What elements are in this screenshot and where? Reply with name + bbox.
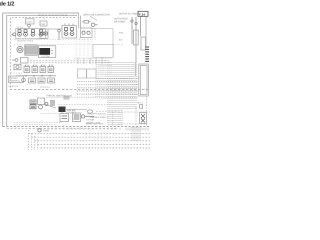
bottom fan rows bbox=[29, 134, 151, 148]
sensor S1 box bbox=[40, 29, 48, 39]
injector dots bbox=[65, 33, 72, 34]
svg-text:PARK / NEUTRAL: PARK / NEUTRAL bbox=[86, 122, 105, 125]
mini box marks bbox=[30, 80, 53, 82]
wire W-tr1 bbox=[131, 17, 133, 44]
relay K2 bbox=[32, 67, 38, 73]
coil C1 bbox=[18, 30, 22, 37]
svg-text:A1 B2 C3: A1 B2 C3 bbox=[9, 85, 19, 88]
faint crossing grid upper-middle horizontals bbox=[14, 40, 93, 45]
wire W-tr2 bbox=[135, 17, 137, 62]
svg-text:HOT IN RUN: HOT IN RUN bbox=[114, 17, 128, 20]
wire drop from ignition switch bbox=[61, 112, 63, 114]
resistor box right bbox=[141, 37, 146, 50]
svg-text:de 1/2: de 1/2 bbox=[0, 0, 14, 7]
top right fuse box F1 bbox=[138, 11, 148, 16]
small dark marks cluster bbox=[50, 101, 55, 105]
connector circle upper-left bbox=[28, 24, 31, 27]
mid long dashed bus line bbox=[10, 89, 150, 91]
svg-text:TYPICAL IGNITION COIL: TYPICAL IGNITION COIL bbox=[46, 94, 73, 97]
lower mid component boxes bbox=[60, 113, 81, 122]
relay box R1 bbox=[81, 28, 93, 38]
label underline bbox=[46, 96, 76, 98]
main dotted row bus (middle right) bbox=[77, 79, 138, 98]
coil C3 bbox=[31, 30, 35, 37]
vertical wire with ring bbox=[58, 30, 61, 41]
starter cluster: solenoid box bbox=[38, 98, 45, 105]
bottom left: ground ring bbox=[38, 129, 41, 132]
relay cluster pins bbox=[26, 65, 53, 67]
sensor S1 circles bbox=[41, 32, 48, 35]
svg-text:C128: C128 bbox=[26, 21, 32, 24]
faint crossing grid upper-middle verticals bbox=[76, 38, 92, 66]
wire relay to ECM bbox=[92, 29, 113, 45]
bus row under ECM bbox=[74, 57, 112, 59]
diag wire bbox=[44, 104, 56, 108]
right tick fringe under bus bbox=[126, 128, 148, 131]
sensor S1 dots bbox=[42, 33, 47, 34]
PCM connector dark block bbox=[38, 46, 56, 58]
small label block mid bbox=[64, 96, 70, 100]
svg-text:BLK: BLK bbox=[119, 39, 124, 42]
top-left inner dashed drop bbox=[43, 18, 45, 26]
dashed drop wire bbox=[94, 28, 96, 40]
relay K1 bbox=[24, 67, 30, 73]
svg-text:CMP: CMP bbox=[41, 23, 46, 26]
lower-left slanted dashes bbox=[14, 114, 76, 125]
ignition switch dark box bbox=[59, 107, 66, 113]
svg-text:C1 PCM: C1 PCM bbox=[41, 55, 49, 58]
svg-text:1 2 3 4: 1 2 3 4 bbox=[17, 26, 24, 29]
relay K3 bbox=[40, 67, 46, 73]
injector I1 bbox=[64, 28, 68, 36]
lower box stripes bbox=[74, 115, 80, 119]
wire W-tr5 bbox=[145, 17, 147, 47]
bus under relays bbox=[16, 75, 56, 77]
dashed line mid right bbox=[96, 111, 118, 113]
relay K4 bbox=[48, 67, 54, 73]
bottom fan staircase verticals bbox=[29, 130, 38, 150]
solenoid with ring left bbox=[14, 64, 21, 70]
starter motor circle bbox=[39, 105, 43, 109]
relay cluster block bbox=[24, 67, 54, 73]
coil center dots bbox=[19, 34, 42, 35]
connector boxes above bus bbox=[78, 69, 97, 78]
injector bank box bbox=[62, 26, 77, 39]
dashed branch above ignition switch bbox=[58, 104, 112, 106]
junction dots bbox=[25, 75, 50, 76]
ring terminal bbox=[91, 23, 97, 26]
oval terminal bbox=[87, 110, 92, 113]
leader line bbox=[90, 16, 97, 21]
svg-text:C2 C3 C4: C2 C3 C4 bbox=[40, 86, 50, 89]
svg-text:ST RUN: ST RUN bbox=[86, 118, 95, 121]
fusible link box bbox=[134, 30, 139, 45]
bus tick columns bbox=[78, 58, 102, 64]
ignition coil pack box bbox=[16, 29, 46, 39]
relay module stack left-mid bbox=[30, 100, 36, 109]
second module border bbox=[7, 16, 77, 127]
mid dotted rows short (upper) bbox=[96, 65, 112, 74]
svg-text:ENGINE: ENGINE bbox=[9, 77, 18, 80]
svg-text:RLY 2: RLY 2 bbox=[137, 102, 144, 105]
junction wire with connector bbox=[48, 28, 62, 30]
relay coil marks bbox=[25, 69, 53, 71]
sensor label box mid-top bbox=[40, 21, 47, 26]
wire from connector to coil box bbox=[28, 27, 30, 29]
dashed stub to border bbox=[11, 72, 23, 74]
inner dashed border bbox=[11, 18, 75, 90]
injector I2 bbox=[70, 28, 74, 36]
inline connector ring left of coil box bbox=[12, 33, 16, 36]
svg-text:OR START: OR START bbox=[114, 21, 126, 24]
sensor ring G1 bbox=[22, 78, 26, 82]
coil C4 bbox=[39, 30, 43, 37]
svg-text:CONTROL: CONTROL bbox=[9, 80, 20, 83]
bottom long dashed bus line B bbox=[7, 128, 118, 130]
small sensor with ring mid-left bbox=[12, 58, 28, 64]
EGR motor symbol bbox=[17, 46, 23, 52]
bottom long dashed bus line A bbox=[3, 126, 150, 128]
dashed box lower-right bottom edge bbox=[118, 123, 147, 125]
small fuse symbol bbox=[82, 21, 91, 24]
left short dotted rows upper harness bbox=[100, 63, 112, 66]
vertical dotted harness columns bbox=[108, 62, 136, 126]
contact rings right of boxes bbox=[81, 115, 94, 118]
svg-text:BLK/WHT SIG A12: BLK/WHT SIG A12 bbox=[88, 112, 107, 115]
svg-text:F 24: F 24 bbox=[139, 12, 145, 16]
injector box pins bbox=[65, 24, 73, 26]
coil C2 bbox=[24, 30, 28, 37]
border right edge double wire bbox=[79, 13, 81, 28]
svg-text:IGNITION COILS: IGNITION COILS bbox=[17, 40, 34, 43]
svg-text:PNK: PNK bbox=[119, 32, 124, 35]
dashed verticals near right components bbox=[136, 96, 147, 126]
relay R1 contacts bbox=[82, 31, 90, 34]
dashed corner right of ECM box bbox=[113, 45, 124, 59]
outer module border bbox=[3, 13, 79, 127]
right component cluster with X marks bbox=[140, 113, 147, 124]
connector label box upper-left bbox=[26, 19, 35, 24]
hatch block frame bbox=[25, 45, 38, 55]
connector pin column right bbox=[145, 47, 149, 61]
left harness columns short bbox=[96, 60, 106, 100]
stepper connector hatch block bbox=[26, 46, 36, 55]
svg-text:HOT AT ALL TIMES: HOT AT ALL TIMES bbox=[119, 13, 140, 16]
dashed box lower right bbox=[118, 111, 150, 113]
inline connector rings top right bbox=[131, 20, 137, 25]
wire W-tr4 bbox=[135, 62, 137, 76]
stack stripes bbox=[31, 102, 35, 108]
wire W-tr3 bbox=[140, 17, 142, 37]
instrument cluster box right bbox=[139, 64, 149, 96]
mid tick fringe under bus bbox=[40, 128, 120, 131]
right small component symbol bbox=[140, 105, 143, 109]
ECM box upper-middle-right bbox=[93, 45, 113, 58]
dashed vertical right of labels bbox=[112, 112, 114, 126]
svg-text:36 30 31 29 28 33 27 26 25: 36 30 31 29 28 33 27 26 25 bbox=[38, 14, 68, 17]
bottom grid verticals middle bbox=[86, 130, 110, 141]
left lower box stripes bbox=[62, 116, 68, 119]
wire to right bbox=[66, 109, 87, 111]
svg-text:DATA LINK CONNECTOR: DATA LINK CONNECTOR bbox=[83, 13, 110, 16]
bus wires mid (three dashed rows) bbox=[30, 61, 110, 63]
starter contact ring bbox=[45, 103, 48, 106]
left label box LB1 bbox=[9, 76, 24, 83]
lower mini boxes row bbox=[29, 78, 55, 83]
bottom right dense knot columns bbox=[132, 127, 140, 141]
